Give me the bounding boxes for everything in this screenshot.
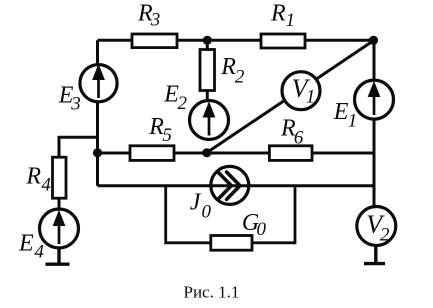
svg-text:R: R — [25, 164, 41, 190]
svg-text:R: R — [220, 54, 236, 80]
svg-text:2: 2 — [178, 93, 188, 114]
svg-text:J: J — [190, 190, 202, 216]
svg-text:3: 3 — [70, 94, 81, 115]
svg-text:4: 4 — [41, 175, 51, 196]
svg-text:3: 3 — [150, 9, 161, 30]
svg-text:Рис. 1.1: Рис. 1.1 — [184, 283, 240, 302]
svg-text:2: 2 — [380, 225, 390, 246]
svg-text:5: 5 — [162, 125, 172, 146]
svg-text:1: 1 — [286, 10, 296, 31]
svg-text:6: 6 — [294, 128, 304, 149]
svg-text:R: R — [270, 1, 286, 27]
svg-text:E: E — [333, 99, 349, 125]
svg-text:E: E — [18, 230, 34, 256]
svg-text:1: 1 — [306, 87, 316, 108]
svg-text:2: 2 — [235, 66, 245, 87]
svg-text:0: 0 — [257, 219, 267, 240]
svg-text:4: 4 — [34, 242, 44, 263]
svg-text:0: 0 — [202, 201, 212, 222]
svg-text:1: 1 — [348, 111, 358, 132]
